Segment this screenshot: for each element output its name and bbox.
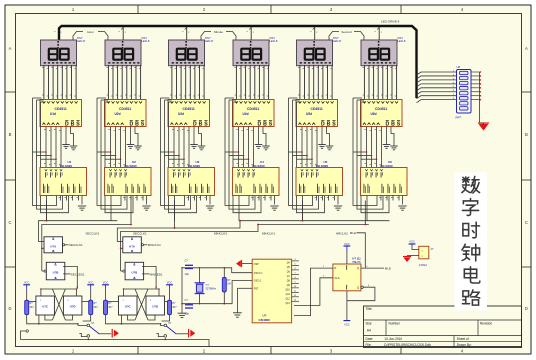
svg-text:10p: 10p — [185, 311, 190, 315]
svg-text:S: S — [397, 122, 401, 128]
latch gates U10C/D — [36, 288, 82, 320]
counter U3 bottom wires — [175, 196, 211, 221]
vcc for connector — [409, 243, 416, 245]
resistor pack output wires — [471, 71, 481, 100]
switch 0 contact wires — [78, 324, 87, 326]
ground under counter U3 — [206, 206, 214, 210]
ground under counter U1 — [78, 206, 86, 210]
gate U12A input wires — [117, 242, 123, 271]
svg-text:SECCLK2: SECCLK2 — [86, 231, 100, 235]
gate U12A — [123, 237, 144, 253]
svg-text:Size: Size — [366, 321, 372, 325]
switch 1 lower stub — [164, 338, 166, 340]
net link Hour — [73, 32, 108, 41]
svg-text:U?D: U?D — [152, 305, 158, 309]
resistor pack RP? — [456, 65, 472, 120]
connector J1 wires — [412, 245, 419, 250]
gate U12A output — [144, 244, 148, 246]
svg-text:B: B — [71, 122, 75, 128]
svg-text:B: B — [525, 132, 528, 137]
svg-text:VCC: VCC — [344, 322, 350, 326]
segment wires DS4 to U4 — [235, 65, 269, 100]
svg-text:SECCLK1: SECCLK1 — [133, 231, 147, 235]
svg-text:Title: Title — [366, 307, 372, 311]
LED drive bus — [59, 26, 417, 98]
ground under driver U6 b — [390, 146, 398, 150]
svg-text:Second: Second — [341, 30, 352, 34]
pullup resistor 0-1 — [89, 300, 93, 315]
svg-text:VCC: VCC — [103, 281, 109, 285]
latch wiring left 0 — [29, 301, 36, 303]
svg-text:Sheet of: Sheet of — [457, 337, 469, 341]
svg-text:VCC: VCC — [167, 281, 173, 285]
svg-text:A: A — [525, 46, 528, 51]
display DS6 — [361, 40, 397, 66]
segment wires DS6 to U6 — [363, 65, 397, 100]
inter-stage carry wires — [39, 196, 390, 249]
resistor pack common wire — [479, 72, 481, 123]
svg-text:D: D — [8, 306, 11, 311]
latch gates U12C/D — [119, 288, 165, 320]
svg-text:RST: RST — [254, 289, 259, 291]
svg-text:LED-8: LED-8 — [398, 39, 406, 43]
svg-text:4K7: 4K7 — [172, 306, 177, 309]
CD4060 Q output stubs — [292, 259, 299, 301]
svg-text:CD4511: CD4511 — [247, 107, 259, 111]
svg-text:CLA: CLA — [334, 276, 339, 280]
ground under driver U5 a — [318, 145, 326, 149]
net link Second — [329, 32, 364, 41]
counter IC U3 74LS390 — [168, 160, 215, 195]
counter IC U2 74LS390 — [105, 160, 152, 195]
svg-text:U?D: U?D — [70, 305, 76, 309]
latch wiring left 1 — [108, 301, 119, 303]
svg-text:U?C: U?C — [42, 305, 48, 309]
gate U10A input wires — [39, 242, 45, 271]
svg-text:MLE: MLE — [350, 231, 356, 235]
ground under driver U6 a — [383, 145, 391, 149]
svg-text:S: S — [269, 122, 273, 128]
capacitor C2 — [185, 305, 193, 308]
bottom net wire — [21, 340, 210, 347]
feedback loop wires column 5 — [289, 98, 325, 213]
display DS3 — [169, 40, 205, 66]
ground for resistor pack — [478, 123, 489, 130]
svg-text:S: S — [76, 122, 80, 128]
driver U2 to counter wires — [109, 127, 139, 168]
svg-text:U?C: U?C — [125, 305, 131, 309]
svg-text:Q10: Q10 — [285, 290, 290, 292]
feedback loop wires column 6 — [353, 98, 389, 213]
svg-text:74LS390: 74LS390 — [60, 164, 73, 168]
connector J1 — [419, 246, 429, 258]
ground under driver U2 b — [134, 146, 142, 150]
svg-text:U5d: U5d — [306, 112, 312, 116]
feedback loop wires column 1 — [33, 98, 69, 213]
svg-text:OSP: OSP — [254, 264, 259, 266]
svg-text:LED-8: LED-8 — [77, 39, 85, 43]
svg-text:SECCLK1: SECCLK1 — [69, 243, 83, 247]
ground under driver U5 b — [326, 146, 334, 150]
svg-text:1M: 1M — [227, 283, 230, 286]
svg-text:10-Jun-2010: 10-Jun-2010 — [384, 337, 402, 341]
gate U10B — [44, 262, 65, 280]
svg-text:VCC: VCC — [344, 242, 350, 246]
svg-text:LED-8: LED-8 — [270, 39, 278, 43]
svg-text:MINCLK1: MINCLK1 — [148, 243, 161, 247]
title block — [364, 306, 522, 348]
svg-text:S: S — [332, 122, 336, 128]
latch wiring right 0 — [82, 301, 89, 303]
counter IC U5 74LS390 — [296, 160, 343, 195]
svg-text:U2d: U2d — [115, 112, 121, 116]
svg-text:Y?: Y? — [206, 283, 210, 287]
svg-text:4K7: 4K7 — [30, 306, 35, 309]
svg-text:CD4511: CD4511 — [375, 107, 387, 111]
display DS3 bus drop wire — [186, 27, 188, 40]
svg-text:U1d: U1d — [50, 112, 56, 116]
svg-text:Q12: Q12 — [285, 299, 290, 301]
svg-text:D: D — [525, 306, 528, 311]
svg-text:B: B — [199, 122, 203, 128]
ground for oscillator — [178, 313, 187, 317]
svg-text:Q: Q — [357, 286, 359, 290]
ground under counter U5 — [334, 206, 342, 210]
driver IC U3 CD4511 — [168, 100, 210, 128]
svg-text:MINLED1: MINLED1 — [150, 273, 163, 277]
svg-text:C?: C? — [185, 259, 189, 263]
ground under driver U4 a — [255, 145, 263, 149]
ground under driver U2 a — [127, 145, 135, 149]
svg-text:74LS390: 74LS390 — [380, 164, 393, 168]
gate U10A output — [65, 244, 69, 246]
svg-text:4K7: 4K7 — [108, 306, 113, 309]
svg-text:U?: U? — [263, 314, 267, 318]
display DS4 — [233, 40, 269, 66]
U9A CLK input wire — [294, 278, 333, 306]
svg-text:74L74: 74L74 — [352, 260, 361, 264]
IC U7 CD4060 — [252, 259, 291, 323]
ground under driver U4 b — [262, 146, 270, 150]
svg-text:VCC: VCC — [88, 281, 94, 285]
display DS5 bus drop wire — [314, 27, 316, 40]
driver U5 to counter wires — [300, 127, 330, 168]
svg-text:74LS390: 74LS390 — [316, 164, 329, 168]
switch 0 common wire — [99, 333, 111, 335]
power arrow 1 — [189, 329, 195, 338]
pullup resistor 1-1 — [168, 300, 172, 315]
svg-text:LED-8: LED-8 — [333, 39, 341, 43]
vcc supply 0-1 — [87, 281, 94, 290]
svg-text:A4: A4 — [367, 329, 371, 333]
chinese character shu — [462, 176, 480, 193]
driver IC U5 CD4511 — [296, 100, 338, 128]
svg-text:U4d: U4d — [243, 112, 249, 116]
svg-text:CD4511: CD4511 — [55, 107, 67, 111]
U9A bottom pin wire — [346, 291, 348, 320]
display DS4 bus drop wire — [250, 27, 252, 40]
switch 0 lower stub — [87, 338, 89, 340]
svg-text:LED-8: LED-8 — [205, 39, 213, 43]
svg-text:CD4511: CD4511 — [311, 107, 323, 111]
switch 1 contact wires — [161, 324, 164, 326]
counter U2 bottom wires — [111, 196, 147, 221]
svg-text:74LS390: 74LS390 — [252, 164, 265, 168]
svg-text:D:\PROTEL99\SCH\CLOCK.Ddb: D:\PROTEL99\SCH\CLOCK.Ddb — [384, 343, 431, 347]
ground under counter U4 — [270, 206, 278, 210]
svg-text:Q11: Q11 — [286, 294, 291, 296]
power arrow 0 — [112, 329, 118, 338]
driver IC U4 CD4511 — [233, 100, 275, 128]
crystal Y1 — [195, 283, 205, 294]
counter IC U1 74LS390 — [40, 160, 87, 195]
ground arrow for connector — [403, 257, 411, 262]
switch 1 — [164, 322, 176, 337]
net labels row — [86, 231, 349, 235]
gate U12B output — [142, 266, 156, 289]
U9A D input wire — [294, 268, 333, 316]
vcc for U9A — [344, 242, 351, 251]
counter U4 bottom wires — [239, 196, 275, 221]
ground for CD4060 reset — [233, 313, 242, 317]
svg-text:U?A: U?A — [129, 244, 135, 248]
flip-flop U9A 74LS74 — [333, 264, 361, 291]
gate U10A — [44, 237, 65, 253]
svg-text:B: B — [135, 122, 139, 128]
net link Minute — [201, 32, 236, 41]
svg-text:S: S — [141, 122, 145, 128]
svg-text:74LS390: 74LS390 — [188, 164, 201, 168]
ground under driver U3 b — [198, 146, 206, 150]
CD4060 left pin wires — [224, 268, 252, 313]
ground under counter U2 — [142, 206, 150, 210]
svg-text:B: B — [263, 122, 267, 128]
counter IC U6 74LS390 — [361, 160, 408, 195]
display DS5 — [297, 40, 333, 66]
svg-text:MINCLK2: MINCLK2 — [214, 231, 227, 235]
pullup resistor 1-0 — [104, 300, 108, 315]
svg-text:A: A — [9, 46, 12, 51]
svg-text:74LS390: 74LS390 — [124, 164, 137, 168]
svg-text:U6d: U6d — [371, 112, 377, 116]
counter U6 bottom wires — [367, 196, 403, 221]
svg-text:CD4060: CD4060 — [259, 318, 271, 322]
svg-text:U?A: U?A — [50, 244, 56, 248]
driver U3 to counter wires — [172, 127, 202, 168]
svg-text:HRCLK2: HRCLK2 — [336, 231, 348, 235]
svg-text:U8: U8 — [457, 65, 461, 69]
svg-text:U?B: U?B — [131, 271, 137, 275]
title text background strip — [455, 173, 488, 311]
bus fan-out wires — [417, 70, 457, 102]
chinese character shi — [463, 222, 480, 238]
svg-text:B: B — [391, 122, 395, 128]
ground under driver U3 a — [190, 145, 198, 149]
vcc bar bottom U9A — [344, 320, 351, 322]
svg-text:File:: File: — [366, 343, 372, 347]
svg-text:LED-8: LED-8 — [142, 39, 150, 43]
latch wiring right 1 — [165, 301, 168, 303]
vcc supply 1-0 — [102, 281, 109, 290]
driver U1 to counter wires — [44, 127, 74, 168]
svg-text:B: B — [327, 122, 331, 128]
vcc supply 1-1 — [166, 281, 173, 290]
svg-text:32768Hz: 32768Hz — [206, 287, 217, 291]
display DS6 bus drop wire — [378, 27, 380, 40]
driver U4 to counter wires — [237, 127, 267, 168]
svg-text:B: B — [9, 132, 12, 137]
svg-text:J?: J? — [431, 247, 434, 251]
ground under counter U6 — [398, 206, 406, 210]
counter U1 bottom wires — [47, 196, 83, 221]
gate U10B output — [63, 266, 77, 289]
svg-text:OSCO 1: OSCO 1 — [254, 273, 263, 275]
chinese character zi — [462, 199, 478, 216]
svg-text:Q13: Q13 — [285, 303, 290, 305]
driver U6 to counter wires — [365, 127, 395, 168]
driver IC U1 CD4511 — [40, 100, 82, 128]
ground under driver U1 a — [62, 145, 70, 149]
chinese character zhong — [462, 244, 480, 261]
driver IC U2 CD4511 — [105, 100, 147, 128]
gate U12B — [123, 262, 144, 280]
gate U12B input wire — [121, 270, 123, 272]
switch 1 common wire — [176, 333, 188, 335]
svg-text:U?B: U?B — [53, 271, 59, 275]
svg-text:Drawn By:: Drawn By: — [457, 343, 472, 347]
svg-text:D: D — [334, 266, 336, 270]
chinese character lu — [462, 290, 479, 305]
svg-text:SECLED1: SECLED1 — [71, 273, 85, 277]
switch 0 — [87, 322, 99, 337]
svg-text:C: C — [525, 220, 528, 225]
segment wires DS2 to U2 — [107, 65, 141, 100]
svg-text:Number: Number — [389, 321, 401, 325]
svg-text:MLE: MLE — [385, 266, 391, 270]
svg-text:10p: 10p — [185, 272, 190, 276]
svg-text:CD4511: CD4511 — [119, 107, 131, 111]
feedback loop wires column 3 — [161, 98, 197, 213]
pullup resistor 0-0 — [25, 300, 29, 315]
svg-text:4K7: 4K7 — [94, 306, 99, 309]
svg-text:CON2: CON2 — [419, 263, 427, 267]
svg-text:Minute: Minute — [214, 30, 223, 34]
vcc supply 0-0 — [23, 281, 30, 290]
svg-text:C: C — [8, 220, 11, 225]
svg-text:MINCLK1: MINCLK1 — [262, 231, 275, 235]
CD4060 Q14 wire to U9A clock — [294, 300, 299, 302]
display DS2 — [105, 40, 141, 66]
counter U5 bottom wires — [303, 196, 339, 221]
segment wires DS5 to U5 — [298, 65, 332, 100]
ground under driver U1 b — [70, 146, 78, 150]
resistor R feedback — [222, 278, 226, 293]
U9A Qbar feedback — [361, 286, 363, 288]
power arrow CD4060 — [236, 260, 241, 267]
svg-text:CD4511: CD4511 — [183, 107, 195, 111]
svg-text:C?: C? — [185, 298, 189, 302]
svg-text:Hour: Hour — [87, 30, 94, 34]
svg-text:LED DRIVE 8: LED DRIVE 8 — [381, 19, 400, 23]
svg-text:VCC: VCC — [24, 281, 30, 285]
segment wires DS1 to U1 — [42, 65, 76, 100]
svg-text:Q: Q — [357, 266, 359, 270]
svg-text:VCC: VCC — [409, 240, 415, 244]
left wire stub group1 — [21, 331, 26, 340]
svg-text:U3d: U3d — [178, 112, 184, 116]
gate U10B input wire — [42, 270, 44, 272]
segment wires DS3 to U3 — [170, 65, 204, 100]
counter IC U4 74LS390 — [233, 160, 280, 195]
display DS1 — [41, 40, 77, 66]
svg-text:Revision: Revision — [480, 321, 492, 325]
svg-text:OSCI 1: OSCI 1 — [254, 281, 262, 283]
svg-text:Date:: Date: — [366, 337, 374, 341]
display DS2 bus drop wire — [122, 27, 124, 40]
U9A Q output wire — [361, 267, 384, 269]
feedback loop wires column 2 — [97, 98, 133, 213]
capacitor C1 — [185, 265, 193, 268]
feedback loop wires column 4 — [225, 98, 261, 213]
svg-text:S: S — [204, 122, 208, 128]
svg-text:RP?: RP? — [456, 116, 462, 120]
driver IC U6 CD4511 — [361, 100, 403, 128]
oscillator rails — [182, 268, 224, 313]
chinese character dian — [464, 267, 479, 283]
